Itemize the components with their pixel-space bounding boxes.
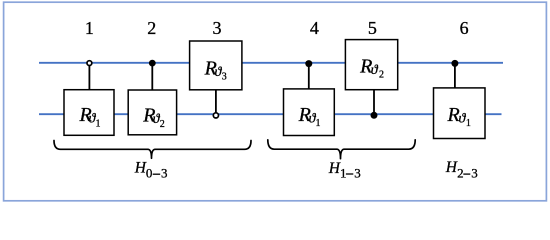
label H_0-3 (134, 159, 168, 180)
svg-text:3: 3 (161, 166, 168, 181)
label R_theta3 in box U3 (204, 57, 227, 82)
svg-text:1: 1 (316, 118, 321, 129)
brace H_1-3 (268, 140, 415, 159)
gate box U5 R_theta2 (345, 40, 397, 90)
wire control stem 1 (88, 65, 90, 90)
svg-text:H: H (445, 159, 458, 176)
svg-text:0: 0 (146, 166, 153, 181)
control open-circle node 1 (87, 61, 92, 66)
control filled-dot node 5 (371, 112, 378, 119)
node number 2 (147, 18, 156, 38)
svg-text:6: 6 (460, 18, 469, 38)
gate box U2 R_theta2 (128, 90, 176, 135)
wire control stem 2 (151, 63, 153, 90)
wire control stem 4 (308, 64, 310, 89)
svg-text:2: 2 (147, 18, 156, 38)
svg-text:1: 1 (85, 18, 94, 38)
wire control stem 5 (373, 90, 375, 116)
gate box U6 R_theta1 (434, 88, 486, 139)
svg-text:1: 1 (340, 165, 347, 180)
svg-text:2: 2 (379, 70, 384, 81)
label R_theta2 in box U5 (359, 56, 384, 81)
label H_1-3 (328, 160, 361, 181)
node number 6 (460, 18, 469, 38)
svg-text:1: 1 (95, 118, 100, 129)
control filled-dot node 4 (305, 60, 312, 67)
svg-text:1: 1 (466, 118, 471, 129)
svg-text:3: 3 (471, 165, 478, 180)
node number 4 (310, 18, 319, 38)
gate box U3 R_theta3 (190, 41, 242, 90)
svg-text:H: H (134, 159, 147, 176)
svg-text:H: H (328, 160, 341, 177)
control open-circle node 3 (213, 113, 218, 118)
label R_theta1 in box U1 (79, 104, 101, 129)
svg-text:3: 3 (213, 18, 222, 38)
svg-text:2: 2 (160, 119, 165, 130)
node number 5 (368, 18, 377, 38)
label R_theta2 in box U2 (142, 105, 165, 130)
wire control stem 6 (454, 63, 456, 88)
wire control stem 3 (215, 90, 217, 113)
gate box U1 R_theta1 (64, 90, 114, 136)
label R_theta1 in box U4 (298, 104, 321, 129)
svg-text:2: 2 (457, 165, 464, 180)
control filled-dot node 2 (149, 60, 156, 67)
label R_theta1 in box U6 (447, 104, 471, 129)
svg-text:3: 3 (222, 71, 227, 82)
svg-text:ϑ: ϑ (371, 63, 379, 78)
svg-text:5: 5 (368, 18, 377, 38)
node number 3 (213, 18, 222, 38)
gate box U4 R_theta1 (284, 89, 335, 136)
brace H_0-3 (54, 141, 251, 159)
svg-text:4: 4 (310, 18, 319, 38)
wire qubit-1 (bottom rail) (39, 113, 502, 115)
svg-text:3: 3 (354, 165, 361, 180)
wire qubit-0 (top rail) (39, 62, 503, 64)
control filled-dot node 6 (451, 60, 458, 67)
label H_2-3 (445, 159, 478, 180)
node number 1 (85, 18, 94, 38)
